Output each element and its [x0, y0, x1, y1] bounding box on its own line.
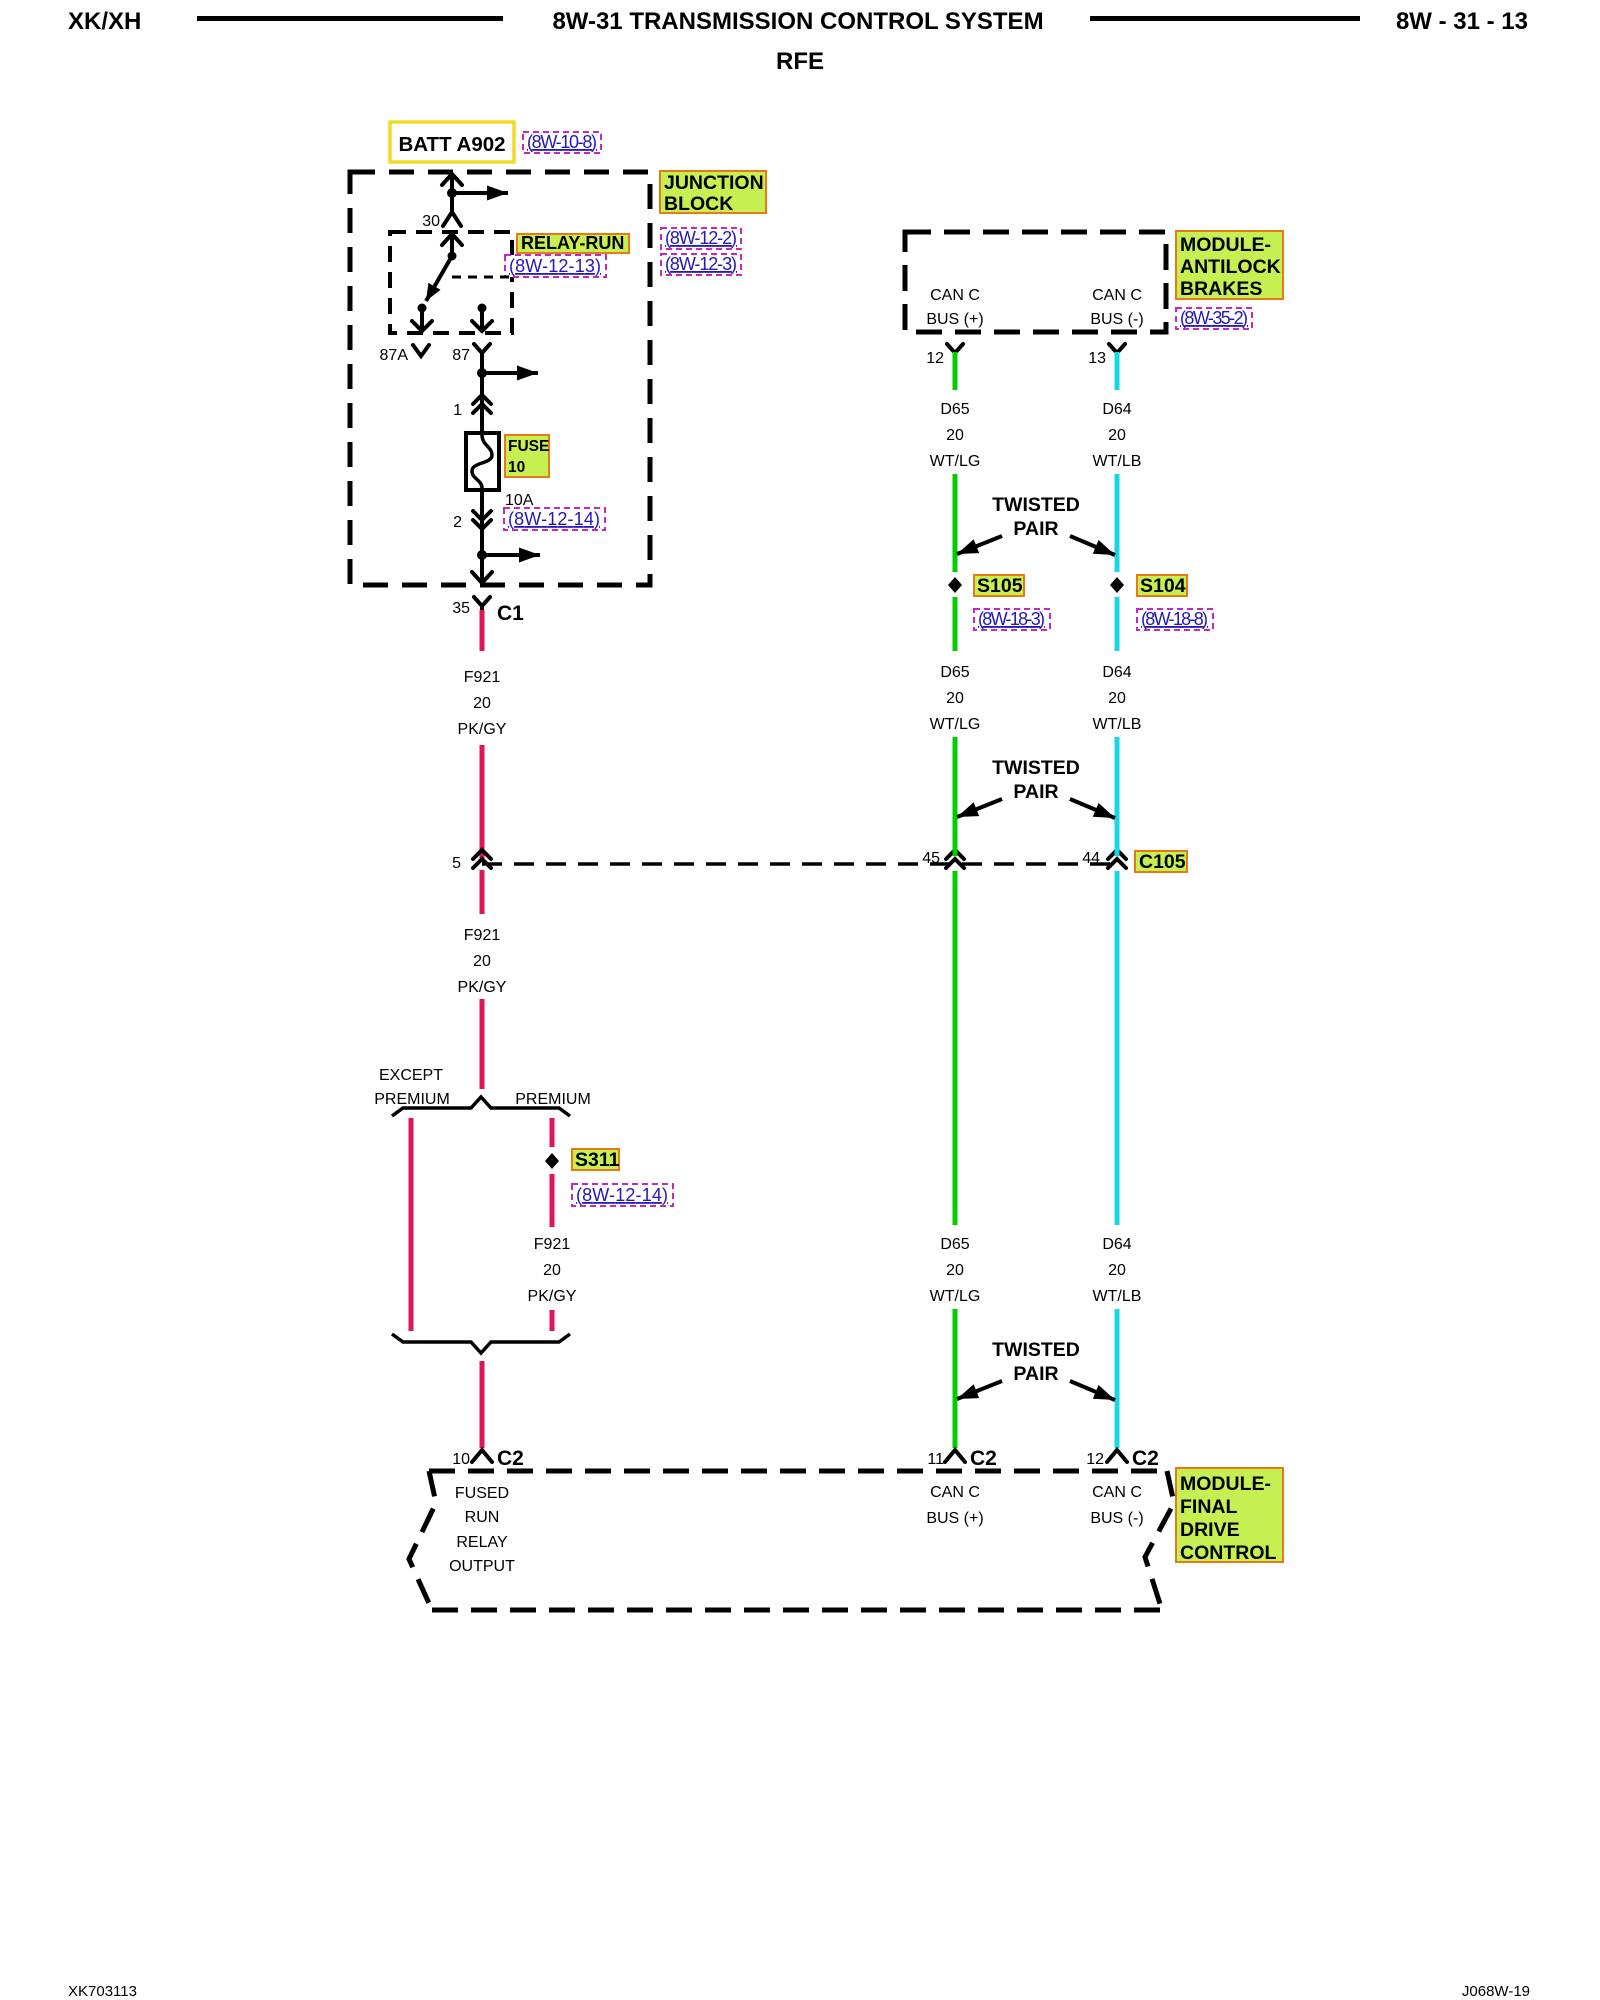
svg-text:45: 45: [922, 850, 940, 867]
svg-text:13: 13: [1088, 350, 1106, 367]
svg-text:DRIVE: DRIVE: [1180, 1519, 1240, 1541]
svg-text:20: 20: [1108, 427, 1126, 444]
svg-text:D65: D65: [940, 1236, 969, 1253]
svg-text:CAN C: CAN C: [930, 1484, 980, 1501]
svg-text:PREMIUM: PREMIUM: [374, 1091, 450, 1108]
svg-text:20: 20: [473, 695, 491, 712]
svg-text:10: 10: [508, 459, 525, 476]
svg-text:BATT A902: BATT A902: [398, 133, 505, 156]
svg-text:RFE: RFE: [776, 48, 824, 75]
svg-text:30: 30: [422, 213, 440, 230]
svg-text:2: 2: [453, 514, 462, 531]
svg-text:20: 20: [473, 953, 491, 970]
svg-text:XK/XH: XK/XH: [68, 8, 141, 35]
svg-text:BUS (+): BUS (+): [926, 1510, 983, 1527]
svg-text:TWISTED: TWISTED: [992, 757, 1080, 779]
svg-text:PK/GY: PK/GY: [458, 979, 507, 996]
svg-text:CONTROL: CONTROL: [1180, 1542, 1276, 1564]
svg-text:PREMIUM: PREMIUM: [515, 1091, 591, 1108]
svg-text:EXCEPT: EXCEPT: [379, 1067, 443, 1084]
svg-text:D64: D64: [1102, 664, 1131, 681]
svg-text:TWISTED: TWISTED: [992, 1339, 1080, 1361]
svg-text:87: 87: [452, 347, 470, 364]
svg-text:(8W-12-2): (8W-12-2): [665, 228, 737, 248]
svg-text:35: 35: [452, 600, 470, 617]
svg-text:WT/LB: WT/LB: [1093, 1288, 1142, 1305]
svg-text:D64: D64: [1102, 401, 1131, 418]
svg-text:FUSE: FUSE: [508, 438, 549, 455]
svg-text:MODULE-: MODULE-: [1180, 1473, 1271, 1495]
svg-text:C2: C2: [970, 1447, 997, 1470]
svg-text:1: 1: [453, 402, 462, 419]
svg-text:12: 12: [926, 350, 944, 367]
svg-text:(8W-18-8): (8W-18-8): [1141, 609, 1208, 629]
svg-text:12: 12: [1086, 1451, 1104, 1468]
svg-text:MODULE-: MODULE-: [1180, 234, 1271, 256]
svg-text:D65: D65: [940, 401, 969, 418]
svg-text:F921: F921: [464, 669, 501, 686]
svg-text:C2: C2: [497, 1447, 524, 1470]
svg-text:S105: S105: [977, 575, 1023, 597]
svg-text:S104: S104: [1140, 575, 1186, 597]
svg-text:8W - 31 - 13: 8W - 31 - 13: [1396, 8, 1528, 35]
svg-text:(8W-12-3): (8W-12-3): [665, 254, 737, 274]
svg-text:WT/LB: WT/LB: [1093, 716, 1142, 733]
svg-text:PAIR: PAIR: [1013, 1363, 1058, 1385]
svg-text:XK703113: XK703113: [68, 1983, 137, 2000]
svg-text:RELAY-RUN: RELAY-RUN: [521, 233, 624, 253]
svg-text:(8W-10-8): (8W-10-8): [527, 132, 597, 152]
svg-text:OUTPUT: OUTPUT: [449, 1558, 515, 1575]
svg-text:PAIR: PAIR: [1013, 781, 1058, 803]
svg-text:WT/LG: WT/LG: [930, 716, 981, 733]
svg-text:D65: D65: [940, 664, 969, 681]
svg-text:87A: 87A: [380, 347, 409, 364]
svg-text:8W-31 TRANSMISSION CONTROL SYS: 8W-31 TRANSMISSION CONTROL SYSTEM: [552, 8, 1043, 35]
svg-text:PK/GY: PK/GY: [458, 721, 507, 738]
svg-text:20: 20: [946, 427, 964, 444]
svg-text:WT/LB: WT/LB: [1093, 453, 1142, 470]
svg-text:BRAKES: BRAKES: [1180, 278, 1262, 300]
svg-text:ANTILOCK: ANTILOCK: [1180, 256, 1281, 278]
svg-text:C2: C2: [1132, 1447, 1159, 1470]
svg-text:WT/LG: WT/LG: [930, 453, 981, 470]
svg-text:TWISTED: TWISTED: [992, 494, 1080, 516]
svg-text:F921: F921: [464, 927, 501, 944]
svg-text:CAN C: CAN C: [1092, 1484, 1142, 1501]
svg-text:10A: 10A: [505, 492, 534, 509]
svg-text:JUNCTION: JUNCTION: [664, 172, 764, 194]
svg-text:PK/GY: PK/GY: [528, 1288, 577, 1305]
svg-text:RUN: RUN: [465, 1509, 500, 1526]
svg-text:RELAY: RELAY: [456, 1534, 508, 1551]
svg-text:J068W-19: J068W-19: [1462, 1983, 1530, 2000]
svg-text:(8W-12-14): (8W-12-14): [508, 509, 600, 529]
svg-text:20: 20: [946, 1262, 964, 1279]
svg-text:CAN C: CAN C: [1092, 287, 1142, 304]
svg-text:BUS (-): BUS (-): [1090, 1510, 1143, 1527]
svg-text:(8W-35-2): (8W-35-2): [1180, 308, 1248, 328]
svg-text:20: 20: [1108, 1262, 1126, 1279]
svg-text:20: 20: [543, 1262, 561, 1279]
svg-text:10: 10: [452, 1451, 470, 1468]
svg-text:BUS (-): BUS (-): [1090, 311, 1143, 328]
svg-text:BUS (+): BUS (+): [926, 311, 983, 328]
svg-text:D64: D64: [1102, 1236, 1131, 1253]
svg-text:CAN C: CAN C: [930, 287, 980, 304]
svg-text:20: 20: [1108, 690, 1126, 707]
svg-text:WT/LG: WT/LG: [930, 1288, 981, 1305]
svg-text:5: 5: [452, 855, 461, 872]
svg-text:BLOCK: BLOCK: [664, 193, 733, 215]
svg-text:(8W-18-3): (8W-18-3): [978, 609, 1045, 629]
svg-text:11: 11: [927, 1451, 944, 1468]
svg-text:PAIR: PAIR: [1013, 518, 1058, 540]
svg-text:C105: C105: [1139, 851, 1186, 873]
svg-text:C1: C1: [497, 602, 524, 625]
svg-text:20: 20: [946, 690, 964, 707]
svg-text:44: 44: [1082, 850, 1100, 867]
svg-text:S311: S311: [575, 1149, 620, 1171]
svg-text:FINAL: FINAL: [1180, 1496, 1237, 1518]
svg-text:(8W-12-14): (8W-12-14): [576, 1185, 668, 1205]
svg-text:FUSED: FUSED: [455, 1485, 509, 1502]
svg-text:(8W-12-13): (8W-12-13): [509, 256, 601, 276]
svg-text:F921: F921: [534, 1236, 571, 1253]
